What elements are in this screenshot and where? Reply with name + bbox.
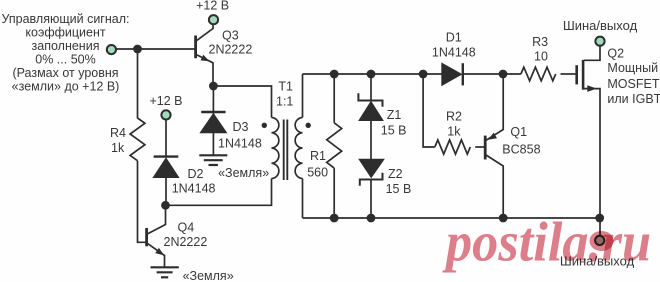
svg-text:Z1: Z1 xyxy=(387,108,402,122)
svg-text:Q3: Q3 xyxy=(222,29,239,43)
transistor Q3 xyxy=(196,25,213,86)
svg-text:R3: R3 xyxy=(532,35,548,49)
terminal +12V mid xyxy=(161,110,170,119)
diode D2 xyxy=(153,157,178,206)
svg-text:D1: D1 xyxy=(446,31,462,45)
wire node B to transformer primary bottom xyxy=(166,179,272,206)
svg-text:1N4148: 1N4148 xyxy=(432,46,476,60)
svg-text:Z2: Z2 xyxy=(388,167,403,181)
wire R4 branch vertical top xyxy=(137,49,139,118)
terminal output bottom xyxy=(595,236,604,245)
svg-text:postila.ru: postila.ru xyxy=(442,211,651,273)
svg-text:D2: D2 xyxy=(188,167,204,181)
zener Z2 xyxy=(359,159,384,218)
wire input to Q3 base xyxy=(111,48,194,50)
svg-text:(Размах от уровня: (Размах от уровня xyxy=(12,66,118,80)
transformer T1 primary winding xyxy=(272,118,279,179)
svg-text:«Земля»: «Земля» xyxy=(218,166,269,180)
wire D1 cathode to R3 xyxy=(463,73,521,75)
svg-text:или IGBT: или IGBT xyxy=(607,92,660,106)
svg-text:1N4148: 1N4148 xyxy=(172,182,216,196)
ground (D3) xyxy=(199,155,227,165)
zener Z1 xyxy=(358,93,383,159)
wire R3 to Q2 gate xyxy=(561,73,576,75)
transistor Q1 xyxy=(485,74,503,218)
transformer T1 secondary winding xyxy=(295,118,302,179)
svg-text:R2: R2 xyxy=(446,110,462,124)
svg-text:«Земля»: «Земля» xyxy=(183,269,234,282)
transistor Q4 xyxy=(147,205,166,267)
svg-text:+12 В: +12 В xyxy=(149,94,182,108)
wire node A to transformer primary top xyxy=(213,86,271,118)
svg-text:Шина/выход: Шина/выход xyxy=(563,18,638,33)
junction top rail R2 branch xyxy=(419,70,428,79)
wire R1 top xyxy=(333,74,335,123)
terminal output top xyxy=(595,37,604,46)
watermark stroke over output terminal xyxy=(590,231,614,251)
diode D1 xyxy=(442,63,463,85)
svg-text:15 В: 15 В xyxy=(381,124,407,138)
junction top rail D1/R3/Q1 xyxy=(499,70,508,79)
junction bottom rail Q1 collector xyxy=(499,214,508,223)
resistor R2 xyxy=(435,140,470,154)
svg-text:Управляющий сигнал:: Управляющий сигнал: xyxy=(2,12,130,26)
junction input xyxy=(133,45,142,54)
svg-text:BC858: BC858 xyxy=(502,143,540,157)
wire zener branch top xyxy=(370,74,372,101)
svg-text:R4: R4 xyxy=(110,126,126,140)
junction bottom rail output xyxy=(595,214,604,223)
wire R4 bottom to Q4 base xyxy=(138,161,146,243)
wire bottom rail xyxy=(303,217,600,219)
svg-text:Мощный: Мощный xyxy=(607,61,658,75)
svg-text:560: 560 xyxy=(307,166,328,180)
svg-text:1k: 1k xyxy=(447,125,461,139)
svg-text:2N2222: 2N2222 xyxy=(209,43,253,57)
terminal +12V top xyxy=(209,15,218,24)
svg-text:2N2222: 2N2222 xyxy=(164,235,208,249)
wire R2 to Q1 base xyxy=(475,146,484,148)
svg-text:1:1: 1:1 xyxy=(276,95,293,109)
transistor Q2 MOSFET xyxy=(577,46,600,235)
wire secondary top to top rail xyxy=(302,74,304,118)
resistor R1 xyxy=(327,123,342,168)
resistor R4 xyxy=(130,118,145,161)
svg-text:15 В: 15 В xyxy=(386,182,412,196)
wire R1 bottom xyxy=(333,168,335,218)
svg-text:Q4: Q4 xyxy=(178,221,195,235)
svg-text:1N4148: 1N4148 xyxy=(218,137,262,151)
svg-text:D3: D3 xyxy=(233,120,249,134)
svg-text:R1: R1 xyxy=(310,149,326,163)
resistor R3 xyxy=(521,67,556,81)
wire top rail left segment xyxy=(303,73,443,75)
wire +12V terminal to D2 xyxy=(165,120,167,157)
phase dot primary xyxy=(262,123,267,128)
svg-text:1k: 1k xyxy=(111,141,125,155)
transformer T1 core xyxy=(284,120,288,181)
svg-text:«земли» до +12 В): «земли» до +12 В) xyxy=(12,79,120,93)
wire secondary bottom to bottom rail xyxy=(302,179,304,219)
svg-text:MOSFET: MOSFET xyxy=(607,77,659,91)
svg-text:T1: T1 xyxy=(278,80,293,94)
svg-text:+12 В: +12 В xyxy=(196,0,229,13)
node B junction (D2 / Q4 collector / primary bottom) xyxy=(161,201,170,210)
junction bottom rail zeners xyxy=(367,214,376,223)
junction bottom rail R1 xyxy=(330,214,339,223)
ground (Q4 emitter) xyxy=(151,267,179,277)
node A junction (Q3 emitter / D3 / primary) xyxy=(209,82,218,91)
svg-text:10: 10 xyxy=(534,50,548,64)
diode D3 xyxy=(200,86,226,155)
wire R2 branch vertical xyxy=(423,74,435,147)
junction top rail zeners xyxy=(367,70,376,79)
junction top rail R1 xyxy=(330,70,339,79)
svg-text:Q1: Q1 xyxy=(510,125,527,139)
svg-text:0% ... 50%: 0% ... 50% xyxy=(35,52,95,66)
svg-text:Q2: Q2 xyxy=(607,47,624,61)
terminal input xyxy=(107,45,116,54)
phase dot secondary xyxy=(306,123,311,128)
svg-text:заполнения: заполнения xyxy=(32,39,100,53)
svg-text:коэффициент: коэффициент xyxy=(25,25,105,39)
